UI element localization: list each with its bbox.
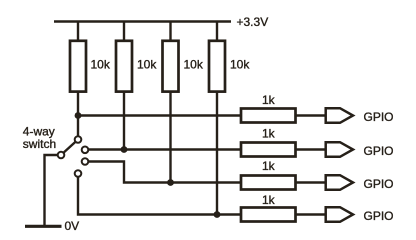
- wire: row3 from switch contact 3 to R7: [88, 162, 240, 183]
- resistor R6 1k body row2: [241, 143, 296, 157]
- switch SW1 contact 2: [82, 147, 89, 154]
- wire: R7 to buffer 3: [297, 181, 326, 183]
- svg-text:10k: 10k: [137, 58, 157, 72]
- ground symbol 0V: [25, 225, 62, 228]
- wire: R2 bottom to node row2: [123, 91, 125, 150]
- switch SW1 pole: [58, 152, 65, 159]
- wire: row4 from switch contact 4 to R8: [78, 177, 241, 215]
- resistor R4 10k body: [209, 41, 225, 92]
- svg-text:GPIO: GPIO: [364, 110, 394, 124]
- wire: R8 to buffer 4: [297, 213, 326, 215]
- wire: R1 bottom to node row1 and switch contact 1: [77, 91, 79, 136]
- svg-text:0V: 0V: [65, 219, 80, 233]
- wire: R3 bottom to node row3: [169, 91, 171, 183]
- svg-text:1k: 1k: [262, 93, 276, 107]
- wire: rail stub to R2: [123, 21, 125, 42]
- node: row1 junction at R1 column: [75, 112, 82, 119]
- node: row4 junction at R4 column: [214, 211, 221, 218]
- wire: R4 bottom to node row4: [216, 91, 218, 215]
- node: row3 junction at R3 column: [167, 179, 174, 186]
- GPIO pin symbol 1: [326, 108, 353, 123]
- resistor R8 1k body row4: [241, 208, 296, 222]
- node: row2 junction at R2 column: [121, 146, 128, 153]
- svg-text:switch: switch: [23, 137, 56, 151]
- svg-text:1k: 1k: [262, 127, 276, 141]
- GPIO pin symbol 3: [326, 175, 353, 190]
- wire: pole to ground: [45, 155, 58, 226]
- switch SW1 contact 1: [75, 136, 82, 143]
- svg-text:1k: 1k: [262, 193, 276, 207]
- svg-text:1k: 1k: [262, 159, 276, 173]
- switch SW1 contact 4: [75, 170, 82, 177]
- svg-text:GPIO: GPIO: [364, 144, 394, 158]
- +3.3V supply rail: [54, 20, 231, 22]
- svg-text:+3.3V: +3.3V: [237, 15, 269, 29]
- svg-text:10k: 10k: [91, 58, 111, 72]
- wire: rail stub to R3: [169, 21, 171, 42]
- resistor R1 10k body: [70, 41, 86, 92]
- switch arm: [64, 142, 76, 153]
- svg-text:GPIO: GPIO: [364, 209, 394, 223]
- svg-text:GPIO: GPIO: [364, 177, 394, 191]
- wire: R6 to buffer 2: [297, 148, 326, 150]
- resistor R5 1k body row1: [241, 109, 296, 123]
- GPIO pin symbol 2: [326, 142, 353, 157]
- wire: rail stub to R4: [216, 21, 218, 42]
- svg-text:10k: 10k: [184, 58, 204, 72]
- resistor R7 1k body row3: [241, 176, 296, 190]
- wire: row1 horizontal to R5: [78, 114, 241, 116]
- GPIO pin symbol 4: [326, 207, 353, 222]
- resistor R3 10k body: [163, 41, 179, 92]
- svg-text:10k: 10k: [230, 58, 250, 72]
- wire: R5 to buffer 1: [297, 114, 326, 116]
- resistor R2 10k body: [116, 41, 132, 92]
- switch SW1 contact 3: [82, 158, 89, 165]
- wire: row2 horizontal from switch contact 2 to R6: [88, 148, 240, 150]
- wire: rail stub to R1: [77, 21, 79, 42]
